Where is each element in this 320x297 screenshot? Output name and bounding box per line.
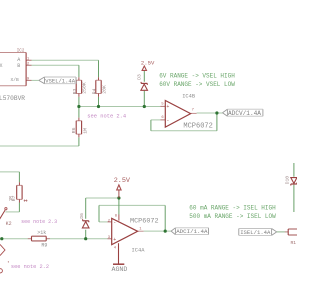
svg-text:B: B bbox=[17, 63, 20, 69]
svg-text:ADCV/1.4A: ADCV/1.4A bbox=[228, 110, 261, 117]
svg-text:500 mA RANGE -> ISEL LOW: 500 mA RANGE -> ISEL LOW bbox=[189, 213, 276, 220]
svg-text:see note 2.3: see note 2.3 bbox=[21, 219, 57, 225]
svg-text:L570BVR: L570BVR bbox=[0, 95, 25, 102]
svg-text:2.5V: 2.5V bbox=[114, 177, 131, 185]
svg-text:60 mA RANGE -> ISEL HIGH: 60 mA RANGE -> ISEL HIGH bbox=[189, 205, 276, 212]
svg-text:IC4A: IC4A bbox=[132, 248, 146, 254]
svg-text:R6: R6 bbox=[71, 127, 77, 133]
svg-text:MCP6072: MCP6072 bbox=[130, 217, 159, 225]
svg-text:1M: 1M bbox=[83, 128, 89, 134]
svg-text:R3: R3 bbox=[72, 89, 78, 95]
svg-text:D3: D3 bbox=[137, 74, 143, 80]
svg-text:6V RANGE -> VSEL HIGH: 6V RANGE -> VSEL HIGH bbox=[159, 73, 235, 80]
svg-text:VSEL/1.4A: VSEL/1.4A bbox=[45, 77, 75, 84]
svg-text:MCP6072: MCP6072 bbox=[183, 122, 212, 130]
svg-text:20K: 20K bbox=[101, 85, 107, 94]
svg-text:X: X bbox=[0, 63, 3, 69]
svg-text:AGND: AGND bbox=[112, 266, 128, 273]
svg-text:1M: 1M bbox=[10, 196, 14, 202]
svg-text:+: + bbox=[166, 104, 169, 110]
svg-text:see note 2.4: see note 2.4 bbox=[87, 113, 126, 119]
svg-text:>1k: >1k bbox=[37, 230, 46, 236]
svg-text:7: 7 bbox=[192, 109, 194, 113]
svg-text:60V RANGE -> VSEL LOW: 60V RANGE -> VSEL LOW bbox=[159, 81, 235, 88]
svg-text:R4: R4 bbox=[92, 89, 98, 95]
svg-text:ISEL/1.4A: ISEL/1.4A bbox=[240, 229, 271, 236]
svg-text:2.5V: 2.5V bbox=[141, 59, 155, 66]
svg-text:+: + bbox=[113, 237, 116, 243]
svg-text:K2: K2 bbox=[6, 221, 12, 227]
svg-text:IC2: IC2 bbox=[17, 50, 25, 54]
svg-text:ADCI/1.4A: ADCI/1.4A bbox=[176, 228, 208, 235]
svg-text:see note 2.2: see note 2.2 bbox=[11, 264, 49, 270]
svg-text:IC4B: IC4B bbox=[182, 94, 196, 100]
svg-text:D6: D6 bbox=[79, 213, 85, 219]
svg-text:R1: R1 bbox=[291, 240, 297, 246]
svg-text:X/B: X/B bbox=[11, 77, 20, 83]
svg-text:250K: 250K bbox=[82, 82, 88, 94]
svg-text:D10: D10 bbox=[284, 176, 290, 185]
svg-text:R9: R9 bbox=[41, 242, 47, 248]
svg-text:-: - bbox=[166, 118, 169, 124]
svg-text:-: - bbox=[113, 220, 116, 226]
